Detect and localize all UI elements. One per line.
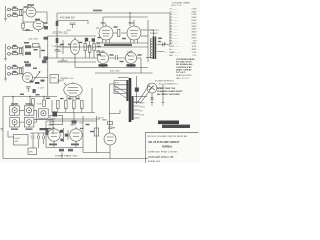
tube V3b — [125, 52, 136, 63]
svg-text:B+ - - - -: B+ - - - - — [170, 49, 178, 51]
svg-text:V6 - - - -: V6 - - - - — [170, 37, 178, 39]
wire pi coupling — [109, 57, 126, 59]
tube V7 — [48, 129, 60, 141]
label pot caption row2 b — [26, 128, 33, 130]
label value tag 1 — [13, 7, 17, 8]
ground ch3 — [4, 78, 7, 81]
capacitor C14 — [26, 87, 31, 93]
wire J5 right — [10, 67, 23, 69]
wire T2 diagonal leads — [114, 86, 126, 99]
svg-text:NO. 05 05 05 AMP. CIRCUIT: NO. 05 05 05 AMP. CIRCUIT — [149, 141, 180, 144]
capacitor C4 — [44, 37, 48, 40]
capacitor C16 — [32, 136, 34, 140]
wire V4 plate left — [96, 27, 99, 29]
svg-text:12AX7: 12AX7 — [70, 124, 77, 127]
capacitor C21 — [151, 98, 154, 99]
wire pot bus y119 — [34, 119, 53, 134]
wire drop to V5 — [129, 13, 131, 26]
resistor R22 — [65, 101, 68, 109]
wire speaker gnd drop left — [151, 93, 153, 103]
svg-text:V1 - - - -: V1 - - - - — [170, 8, 178, 10]
svg-text:-52V: -52V — [192, 52, 197, 54]
svg-text:440V: 440V — [191, 35, 197, 37]
tube V4 5881 — [99, 26, 113, 40]
svg-text:TRANS.: TRANS. — [150, 32, 158, 35]
svg-text:BASS AMP DATE A-785: BASS AMP DATE A-785 — [149, 156, 175, 159]
label logo script — [158, 121, 179, 125]
svg-text:READINGS MAY: READINGS MAY — [176, 74, 192, 77]
svg-text:170V: 170V — [191, 8, 197, 10]
wire between output tubes — [113, 32, 127, 34]
component R bias blob — [135, 88, 139, 92]
wire y96.5 speaker area — [134, 96, 147, 98]
svg-text:FOOT: FOOT — [15, 138, 22, 140]
svg-text:ALL - - - -: ALL - - - - — [170, 54, 179, 57]
svg-text:235V: 235V — [191, 20, 197, 22]
resistor R30 on bus — [56, 21, 59, 26]
label value tag 29 — [20, 94, 24, 95]
label value tag 18 — [97, 46, 101, 47]
wire screen line right — [103, 17, 148, 26]
wire x96.5 drop — [96, 116, 98, 153]
svg-text:SPEAKER LEADS MUST: SPEAKER LEADS MUST — [157, 90, 183, 93]
potentiometer P1 box — [10, 106, 20, 115]
resistor R4 plate — [44, 26, 48, 29]
wire T2 taps right — [134, 102, 140, 118]
wire cathode ch1 — [23, 21, 34, 23]
label value tag 16 — [68, 44, 71, 45]
wire pot row link — [19, 110, 36, 122]
capacitor C22 — [72, 120, 77, 123]
wire V6 plate up — [64, 82, 73, 85]
potentiometer P1 — [12, 108, 17, 113]
svg-text:VARY 20 PCT: VARY 20 PCT — [176, 77, 190, 80]
pins V5 — [131, 39, 138, 43]
wire drop x74 — [73, 113, 75, 121]
svg-text:HTR - - - -: HTR - - - - — [170, 46, 180, 48]
svg-text:BIAS: BIAS — [102, 119, 108, 122]
svg-text:12AX7: 12AX7 — [127, 51, 134, 54]
label value tag 12 — [13, 71, 17, 72]
wire ch3 to edge — [33, 62, 48, 97]
label under V8 — [71, 144, 79, 146]
resistor R13 — [84, 44, 86, 51]
wire x36.5 drop — [36, 110, 38, 122]
label value tag 34 — [86, 124, 90, 125]
potentiometer P2 box — [24, 106, 34, 115]
ground ch2 — [4, 58, 7, 61]
resistor R15 — [93, 44, 95, 51]
component blob left — [46, 130, 49, 135]
label value tag 24 — [122, 38, 126, 39]
resistor R29 blob — [60, 139, 63, 142]
transformer T1 output primary — [153, 37, 155, 60]
transformer T2 primary winding — [126, 80, 128, 101]
label presence box — [50, 75, 59, 84]
svg-text:SPD: SPD — [29, 151, 34, 153]
resistor R12 — [20, 68, 22, 74]
capacitor C8 — [42, 60, 47, 63]
svg-text:V1 - - - -: V1 - - - - — [170, 11, 178, 13]
wire input bus ch1 — [5, 6, 7, 18]
wire V3 top stubs — [103, 50, 131, 52]
wire x170 to speaker — [168, 44, 170, 47]
wire T2 top — [118, 77, 129, 79]
wire V2b left — [63, 40, 70, 54]
pins V6 — [67, 96, 79, 100]
wire vertical x63 — [62, 58, 64, 62]
label cathode tag — [26, 29, 30, 31]
svg-text:470 OHM 2W: 470 OHM 2W — [60, 17, 75, 20]
capacitor C18 — [43, 136, 45, 140]
wire screen line left — [57, 21, 88, 25]
node tone junctions — [12, 96, 13, 97]
label value tag 14 — [33, 68, 37, 69]
capacitor C17 — [38, 136, 40, 140]
svg-text:V6 - - - -: V6 - - - - — [170, 40, 178, 42]
resistor R2 68K — [13, 14, 18, 16]
svg-text:V3 - - - -: V3 - - - - — [170, 20, 178, 22]
transformer T2 power core — [129, 78, 132, 122]
svg-text:160V: 160V — [191, 17, 197, 19]
label pot caption row2 a — [11, 128, 18, 130]
potentiometer P4 box — [24, 118, 34, 127]
svg-text:MODEL 5F6: MODEL 5F6 — [148, 161, 161, 163]
node A — [129, 12, 130, 13]
wire input bus ch3 — [5, 64, 7, 78]
label value tag 27 — [68, 98, 72, 99]
label signature — [162, 125, 190, 128]
svg-text:SW.: SW. — [51, 122, 55, 124]
label box channel — [50, 116, 63, 125]
wire pilot stub — [110, 110, 121, 114]
wire speaker right stub — [157, 84, 163, 88]
resistor R27 — [59, 149, 64, 152]
capacitor C25 blob — [92, 38, 95, 42]
svg-text:ALL VOLTAGES D.C.: ALL VOLTAGES D.C. — [159, 83, 179, 86]
label V3b — [127, 64, 136, 66]
svg-text:430V: 430V — [191, 37, 197, 39]
svg-text:220V: 220V — [191, 23, 197, 25]
wire v3 tails — [103, 64, 131, 68]
svg-text:ALL - - - -: ALL - - - - — [170, 42, 179, 45]
wire J3 right — [10, 47, 23, 49]
wire top bus y121 — [46, 120, 97, 122]
capacitor C7 — [25, 64, 31, 67]
jack J5 — [8, 66, 11, 69]
wire tone bus y96.5 — [3, 96, 57, 98]
wire y36 bus — [48, 35, 96, 37]
potentiometer P5 box — [39, 109, 49, 118]
wire gnd bus y112.5 — [52, 112, 95, 114]
svg-text:V2 - - - -: V2 - - - - — [170, 14, 178, 16]
svg-text:.022 100K: .022 100K — [28, 39, 39, 41]
svg-text:NO SIGNAL ALL: NO SIGNAL ALL — [176, 63, 194, 66]
capacitor C5 — [25, 45, 31, 48]
resistor R3 1M — [20, 10, 22, 16]
tube V9 — [104, 133, 116, 145]
potentiometer VOL arrow — [34, 72, 41, 81]
capacitor C11 — [97, 51, 101, 53]
wire x109.5 B+ drop — [110, 84, 115, 133]
resistor R20 screen — [118, 30, 120, 37]
wire footswitch leads — [8, 131, 14, 137]
label value tag 10 — [41, 50, 45, 51]
tube V6 — [64, 83, 82, 96]
label trem text — [40, 128, 49, 130]
wire trem caps bottom — [33, 139, 44, 148]
label value tag 25 — [98, 37, 101, 38]
label value tag 22 — [138, 54, 142, 55]
wire box right edge — [147, 20, 149, 62]
svg-text:BIAS - - - -: BIAS - - - - — [170, 51, 181, 54]
ground left mark — [1, 129, 4, 131]
potentiometer P3 box — [10, 118, 20, 127]
wire bias line upper — [96, 42, 148, 44]
capacitor C26 blob — [60, 130, 63, 133]
capacitor C24 blob — [85, 38, 88, 42]
svg-text:SCHEM NOT PRINT LOW EXT.: SCHEM NOT PRINT LOW EXT. — [148, 151, 179, 153]
svg-text:5881: 5881 — [101, 22, 107, 25]
resistor R21 — [57, 101, 60, 109]
jack J7 speaker — [147, 83, 157, 93]
wire T1 secondary taps — [157, 45, 168, 52]
wire left border — [2, 97, 4, 159]
wire ch2 to box — [31, 46, 40, 58]
transformer T1 secondary — [150, 39, 151, 59]
wire T2 primary leads — [114, 81, 126, 94]
wire T1 top lead — [148, 30, 154, 37]
svg-text:325V: 325V — [115, 87, 120, 89]
label value tag 31 — [46, 98, 50, 99]
wire V5 plate right — [141, 29, 148, 31]
wire y102 bottom — [134, 102, 141, 104]
svg-text:6.3V: 6.3V — [192, 46, 197, 48]
wire pi bottom bus — [75, 67, 148, 69]
capacitor C27 blob — [65, 134, 69, 137]
wire right bus down — [169, 13, 171, 45]
capacitor C12 — [116, 55, 118, 60]
tube V2b — [70, 40, 79, 55]
label value tag 32 — [48, 128, 52, 129]
label value tag 6 — [13, 45, 17, 46]
svg-text:PRES: PRES — [51, 78, 57, 80]
capacitor C9 — [70, 23, 76, 24]
label pot values — [30, 81, 34, 83]
resistor R9 — [44, 56, 48, 59]
svg-text:75V: 75V — [193, 40, 197, 42]
tube V3a — [97, 52, 108, 63]
capacitor C10 — [97, 43, 101, 45]
svg-text:440V: 440V — [191, 29, 197, 31]
wire J2 to grid — [10, 15, 23, 17]
svg-text:VOLTAGES READ: VOLTAGES READ — [176, 58, 195, 61]
label value tag 13 — [24, 61, 29, 63]
svg-text:12AX7: 12AX7 — [48, 124, 55, 127]
wire C9 stub — [72, 24, 74, 28]
label value tag 33 — [80, 128, 84, 129]
wire y152.5 link — [83, 152, 110, 154]
wire to V1 grid — [23, 11, 26, 13]
label value tag 17 — [79, 42, 83, 43]
wire cathode down — [23, 22, 33, 31]
component blob right of pots — [53, 112, 58, 117]
wire ch3 junction — [22, 66, 24, 76]
label value tag 11 — [13, 65, 17, 66]
wire J4 right — [10, 53, 23, 55]
wire below bus y119 — [52, 118, 100, 120]
label value tag 20 — [110, 54, 114, 55]
svg-text:V3 - - - -: V3 - - - - — [170, 23, 178, 25]
label trem box — [28, 148, 37, 155]
svg-text:PIN 1 2 6 8: PIN 1 2 6 8 — [171, 5, 182, 7]
resistor R10 — [13, 67, 18, 69]
svg-text:5881: 5881 — [129, 22, 135, 25]
tube V1b — [33, 20, 44, 29]
label value tag 2 — [13, 13, 17, 14]
svg-text:V4 - - - -: V4 - - - - — [170, 29, 178, 31]
wire NFB box left edge — [56, 13, 58, 58]
capacitor C19 between tubes — [64, 128, 69, 142]
label value tag 28 — [76, 98, 80, 99]
potentiometer P5 — [41, 111, 46, 116]
svg-text:V2 - - - -: V2 - - - - — [170, 17, 178, 19]
label value tag 5 — [44, 22, 48, 23]
label V1 — [27, 4, 34, 6]
label value tag 9 — [34, 49, 38, 50]
wire B+ top bus — [57, 12, 170, 14]
wire resistor bottoms to bus — [58, 109, 82, 113]
svg-text:465V: 465V — [191, 32, 197, 34]
capacitor C20 — [108, 127, 115, 129]
wire J6 right — [10, 73, 23, 75]
label under V7 — [49, 144, 57, 146]
wire y62 bus — [57, 61, 96, 63]
wire tubes bottom y147.5 — [46, 141, 83, 147]
wire x83 drop — [82, 116, 84, 153]
resistor R11 — [13, 73, 18, 75]
label footswitch box — [14, 135, 29, 146]
tube V2a — [23, 73, 33, 83]
svg-text:.022 270K .022: .022 270K .022 — [52, 33, 68, 35]
svg-text:6.3V: 6.3V — [140, 114, 145, 116]
svg-text:1.5K 220K: 1.5K 220K — [52, 46, 62, 48]
svg-text:IF USED WITH EXT.: IF USED WITH EXT. — [155, 81, 174, 83]
svg-text:VIBRATO CH.: VIBRATO CH. — [61, 77, 75, 80]
capacitor C6 — [25, 52, 31, 55]
label V3a — [99, 64, 108, 66]
wire V1 plate — [36, 12, 47, 24]
svg-text:NORMAL: NORMAL — [162, 146, 173, 149]
label value tag 19 — [97, 54, 101, 55]
svg-text:V4 - - - -: V4 - - - - — [170, 26, 178, 28]
wire tick x62 — [61, 153, 63, 159]
ground ch1 — [4, 18, 7, 21]
label bias text — [104, 44, 132, 46]
jack J2 — [8, 14, 11, 17]
resistor R14 — [89, 46, 91, 53]
wire resistor bottoms — [85, 51, 94, 59]
wire J1 to grid — [10, 9, 23, 11]
label value tag 21 — [120, 61, 124, 62]
wire pi left — [96, 51, 100, 53]
resistor R17 — [43, 100, 46, 107]
svg-text:250K: 250K — [37, 103, 42, 105]
tube V8 — [70, 129, 82, 141]
svg-text:NOTICE: VOLUME CONTROL MUST: NOTICE: VOLUME CONTROL MUST BE — [148, 136, 188, 138]
wire x52 — [51, 100, 53, 113]
svg-text:82K 100K: 82K 100K — [110, 71, 120, 73]
wire grid junction — [22, 8, 24, 22]
label value tag 36 — [158, 38, 162, 39]
wire trem caps top — [30, 133, 47, 136]
resistor R23 — [73, 101, 76, 109]
resistor R24 — [81, 101, 84, 109]
wire x114 drop — [113, 81, 115, 94]
potentiometer P4 — [27, 120, 32, 125]
resistor R6 — [13, 53, 18, 55]
jack J1 — [8, 8, 11, 11]
resistor R5 — [13, 47, 18, 49]
resistor R25 — [94, 128, 99, 136]
transformer T1 core — [155, 37, 156, 60]
svg-text:480V: 480V — [191, 49, 197, 51]
svg-text:170V: 170V — [191, 14, 197, 16]
wire x92 drop — [91, 88, 93, 113]
svg-text:115V: 115V — [115, 83, 120, 85]
pins V4 — [103, 39, 110, 43]
svg-text:325V: 325V — [140, 106, 145, 108]
wire input bus ch2 — [5, 44, 7, 58]
label value tag 8 — [24, 42, 29, 44]
capacitor C23 on bus — [55, 50, 60, 52]
svg-text:POWER TRANS. GND: POWER TRANS. GND — [55, 154, 78, 157]
resistor R1 68K — [13, 8, 18, 10]
resistor R26 — [108, 122, 113, 125]
wire x136 drop — [136, 76, 138, 104]
wire x141 drop — [137, 58, 141, 73]
svg-text:.1 .047: .1 .047 — [38, 87, 45, 89]
resistor R32 cathode — [22, 23, 24, 28]
wire ch2 junction — [22, 46, 24, 56]
label pot captions — [11, 103, 18, 105]
jack J3 — [8, 46, 11, 49]
resistor R7 — [20, 48, 22, 54]
potentiometer P2 — [27, 108, 32, 113]
svg-text:155V: 155V — [191, 11, 197, 13]
svg-text:BE FIRMLY SECURED: BE FIRMLY SECURED — [157, 94, 180, 96]
jack J4 — [8, 52, 11, 55]
capacitor C15 — [33, 89, 36, 93]
svg-text:465V: 465V — [191, 26, 197, 28]
label value tag 7 — [13, 51, 17, 52]
wire resistor tops — [85, 40, 94, 46]
resistor R28 — [68, 149, 73, 152]
svg-text:117V A.C.: 117V A.C. — [176, 71, 186, 74]
label value tag 3 — [24, 6, 29, 7]
wire title block top edge — [146, 131, 199, 133]
resistor R31 on bus — [56, 38, 59, 43]
svg-text:325V: 325V — [115, 91, 120, 93]
jack J6 — [8, 72, 11, 75]
svg-text:8UF: 8UF — [67, 30, 72, 32]
wire bias line lower — [57, 46, 148, 48]
capacitor C13 across output — [163, 43, 166, 47]
label value tag 4 — [35, 19, 40, 21]
wire jack crossing leads — [138, 85, 153, 104]
wire V1b down — [38, 30, 40, 32]
label value tag 26 — [60, 98, 64, 99]
